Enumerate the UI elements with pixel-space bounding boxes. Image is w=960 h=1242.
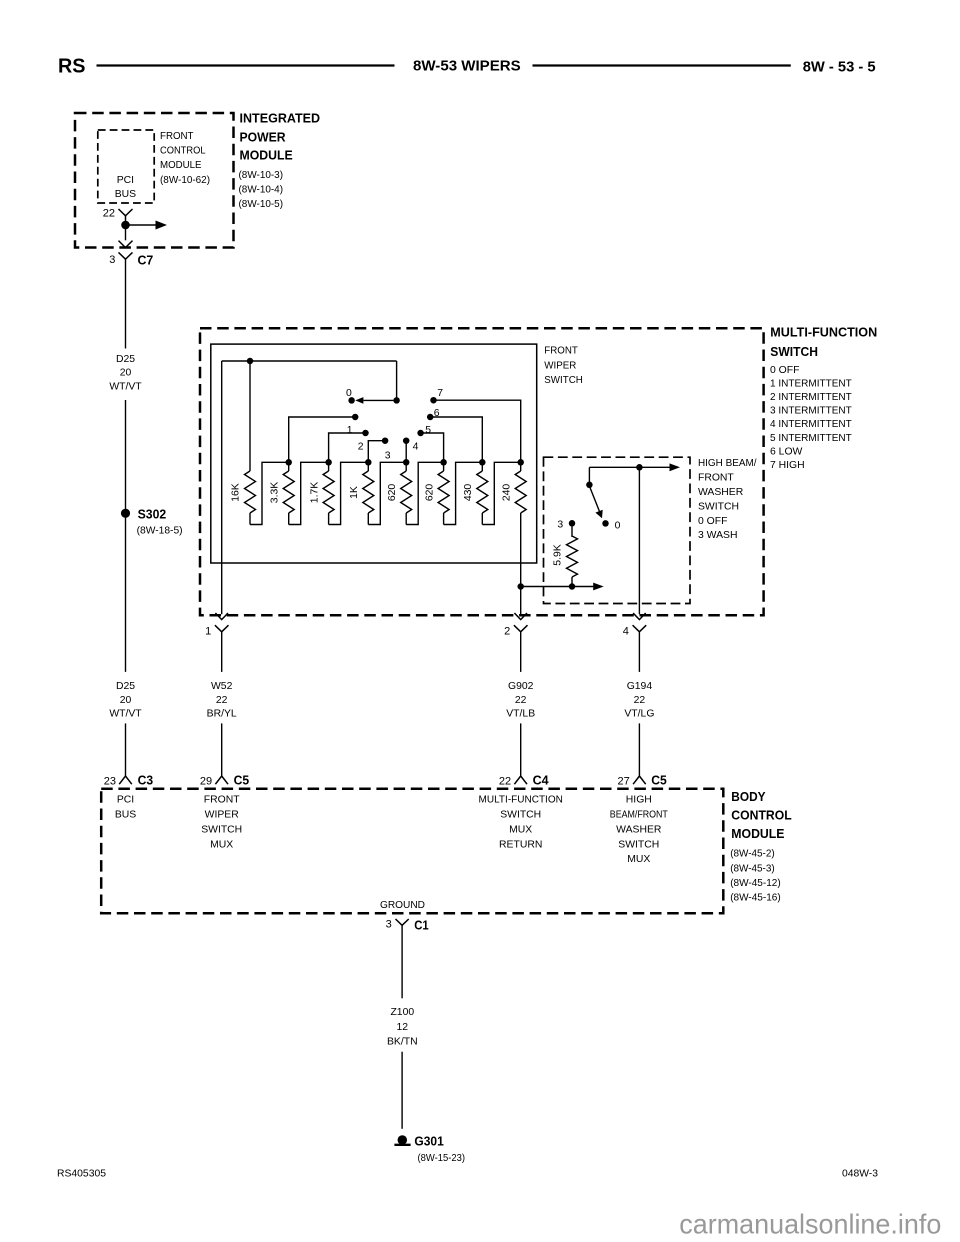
connector label C7	[138, 253, 154, 268]
svg-text:D25: D25	[116, 681, 135, 692]
svg-text:8W-53 WIPERS: 8W-53 WIPERS	[413, 58, 521, 75]
svg-text:7 HIGH: 7 HIGH	[770, 460, 805, 471]
wire D25 from C7 down	[125, 259, 127, 348]
svg-text:FRONT: FRONT	[698, 473, 734, 484]
connector label C5	[651, 772, 667, 787]
svg-text:MODULE: MODULE	[160, 160, 202, 171]
terminal 2 number	[504, 626, 510, 638]
junction dot at 5.9K bottom	[569, 583, 576, 590]
svg-text:C4: C4	[533, 772, 550, 787]
terminal 4 crossing chevron	[633, 613, 646, 620]
svg-text:FRONT: FRONT	[204, 795, 240, 806]
wire label D25 20 WT/VT (upper)	[109, 354, 142, 392]
svg-text:MODULE: MODULE	[731, 826, 784, 841]
connector C7 crossing chevron	[119, 241, 133, 248]
multi-function switch box	[200, 328, 764, 615]
resistor R4 1K	[349, 462, 374, 524]
integrated power module box	[75, 113, 234, 248]
connector C5 male fork at BCM (pin 29)	[215, 776, 228, 784]
svg-text:(8W-45-16): (8W-45-16)	[730, 892, 781, 903]
connector C1 female fork	[396, 919, 409, 925]
switch position legend	[770, 365, 852, 471]
svg-text:20: 20	[120, 368, 132, 379]
svg-text:MUX: MUX	[627, 854, 650, 865]
washer contact 0 dot	[602, 520, 609, 527]
contact 2 dot and tap wire	[329, 430, 369, 463]
svg-text:(8W-10-4): (8W-10-4)	[239, 185, 284, 196]
svg-text:WT/VT: WT/VT	[109, 381, 142, 392]
header rule right	[533, 64, 791, 66]
contact 7 dot and tap wire	[430, 397, 520, 462]
wire Z100 lower segment	[401, 1052, 403, 1129]
svg-text:4 INTERMITTENT: 4 INTERMITTENT	[770, 419, 852, 430]
terminal 2 crossing chevron	[514, 613, 527, 620]
front wiper switch label	[544, 345, 583, 386]
BCM pin 27 function label	[610, 795, 669, 866]
svg-text:WASHER: WASHER	[698, 487, 744, 498]
svg-text:22: 22	[216, 695, 228, 706]
svg-text:3 INTERMITTENT: 3 INTERMITTENT	[770, 406, 852, 417]
pin number 23	[104, 775, 116, 787]
resistor R1 16K	[231, 471, 256, 525]
svg-text:MUX: MUX	[509, 824, 532, 835]
svg-text:1: 1	[205, 626, 211, 638]
svg-text:0: 0	[615, 521, 621, 532]
svg-text:5: 5	[425, 425, 431, 436]
ground G301 symbol	[394, 1135, 410, 1145]
svg-text:(8W-18-5): (8W-18-5)	[137, 526, 183, 537]
footer sheet number 048W-3	[842, 1169, 878, 1180]
wire G194 upper segment	[638, 632, 640, 672]
pin number 3 at C7	[109, 254, 115, 266]
junction dot on washer output	[636, 464, 643, 471]
junction dot at 16K top	[247, 358, 254, 365]
svg-text:620: 620	[424, 484, 435, 502]
front control module box	[98, 130, 154, 203]
wire wiper drop	[396, 361, 398, 400]
svg-text:3 WASH: 3 WASH	[698, 530, 737, 541]
svg-text:WIPER: WIPER	[544, 360, 576, 371]
wire W52 upper segment	[221, 632, 223, 672]
wiper junction dot	[393, 397, 400, 404]
resistor R8 240	[501, 462, 526, 524]
wiper arm arrow pointing at contact 0	[355, 397, 396, 404]
wire series link R3 to R4	[329, 462, 369, 524]
BCM pin 23 function label PCI BUS	[115, 795, 136, 821]
pin 22 connector at FCM	[119, 209, 133, 222]
svg-text:1K: 1K	[349, 486, 360, 499]
BCM ground label	[380, 900, 425, 911]
junction node dot at R4 top	[365, 459, 372, 466]
svg-text:VT/LG: VT/LG	[624, 709, 654, 720]
washer switch movable arm	[589, 485, 603, 518]
connector C7 female fork	[119, 252, 133, 259]
svg-text:3.3K: 3.3K	[269, 482, 280, 503]
svg-text:6 LOW: 6 LOW	[770, 446, 803, 457]
contact 2 label	[358, 441, 364, 452]
junction node dot at R7 top	[479, 459, 486, 466]
connector C5 male fork at BCM (pin 27)	[633, 776, 646, 784]
svg-text:1.7K: 1.7K	[309, 482, 320, 503]
wire G902 lower segment	[520, 723, 522, 776]
contact 6 dot and tap wire	[427, 414, 482, 463]
junction dot in IPM	[121, 221, 130, 230]
wire 240 bottom to junction	[520, 525, 522, 615]
connector C3 male fork at BCM	[119, 776, 132, 784]
svg-text:C1: C1	[414, 918, 429, 933]
svg-text:BUS: BUS	[115, 810, 136, 821]
svg-text:SWITCH: SWITCH	[500, 810, 541, 821]
terminal 1 crossing chevron	[215, 613, 228, 620]
svg-text:RETURN: RETURN	[499, 839, 542, 850]
svg-text:D25: D25	[116, 354, 135, 365]
footer drawing number RS405305	[57, 1169, 106, 1180]
terminal 1 female fork	[215, 625, 229, 632]
wire label G194 22 VT/LG	[624, 681, 654, 719]
node PCI BUS inside FCM	[115, 175, 136, 200]
svg-text:1: 1	[347, 425, 353, 436]
svg-text:3: 3	[385, 451, 391, 462]
wire G194 lower segment	[638, 723, 640, 776]
svg-text:GROUND: GROUND	[380, 900, 425, 911]
contact 5 dot and tap wire	[417, 430, 443, 463]
high beam/front washer switch label	[698, 458, 757, 541]
svg-text:0 OFF: 0 OFF	[770, 365, 799, 376]
splice label S302 (8W-18-5)	[137, 507, 183, 537]
contact 4 dot and tap wire	[403, 437, 410, 462]
svg-text:4: 4	[413, 441, 419, 452]
contact 4 label	[413, 441, 419, 452]
wire D25 continues to BCM	[125, 400, 127, 672]
svg-text:620: 620	[387, 484, 398, 502]
svg-text:FRONT: FRONT	[544, 345, 578, 356]
front control module label	[160, 131, 210, 186]
svg-text:G301: G301	[414, 1133, 443, 1148]
integrated power module label	[239, 111, 321, 211]
svg-text:W52: W52	[211, 681, 233, 692]
svg-text:2: 2	[358, 441, 364, 452]
svg-text:HIGH BEAM/: HIGH BEAM/	[698, 458, 757, 469]
contact 0 dot	[348, 397, 355, 404]
multi-function switch label	[770, 325, 877, 360]
svg-text:(8W-45-12): (8W-45-12)	[730, 878, 781, 889]
wire common feed (left vertical to terminal 1)	[221, 361, 223, 614]
svg-text:23: 23	[104, 775, 116, 787]
wire label W52 22 BR/YL	[207, 681, 237, 719]
wire 16K top lead	[249, 361, 251, 471]
svg-text:22: 22	[103, 208, 115, 220]
wire label Z100 12 BK/TN	[387, 1007, 418, 1048]
terminal 1 number	[205, 626, 211, 638]
header label RS	[58, 56, 86, 78]
body control module label	[730, 789, 792, 904]
washer contact 3 label	[557, 520, 563, 531]
svg-text:PCI: PCI	[117, 795, 134, 806]
svg-text:22: 22	[634, 695, 646, 706]
resistor R7 430	[463, 462, 488, 524]
svg-text:5 INTERMITTENT: 5 INTERMITTENT	[770, 433, 852, 444]
svg-text:(8W-10-62): (8W-10-62)	[160, 175, 210, 186]
svg-text:CONTROL: CONTROL	[160, 146, 206, 157]
junction node dot at R6 top	[440, 459, 447, 466]
wire washer feed with arrow	[521, 583, 604, 591]
svg-text:carmanualsonline.info: carmanualsonline.info	[679, 1208, 941, 1239]
resistor R2 3.3K	[269, 462, 294, 524]
svg-text:SWITCH: SWITCH	[770, 344, 818, 359]
svg-text:Z100: Z100	[390, 1007, 414, 1018]
resistor R3 1.7K	[309, 462, 334, 524]
wire label D25 20 WT/VT (lower)	[109, 681, 142, 719]
svg-text:BODY: BODY	[731, 789, 766, 804]
svg-text:RS: RS	[58, 56, 86, 78]
svg-text:(8W-10-5): (8W-10-5)	[239, 199, 284, 210]
svg-text:POWER: POWER	[240, 129, 287, 144]
svg-text:0: 0	[346, 388, 352, 399]
header rule left	[97, 64, 395, 66]
svg-text:C5: C5	[651, 772, 667, 787]
svg-text:3: 3	[557, 520, 563, 531]
wire top feed horizontal	[222, 360, 397, 362]
svg-text:G902: G902	[508, 681, 534, 692]
resistor R9 5.9K	[552, 523, 577, 586]
front wiper switch inner box	[211, 344, 537, 563]
svg-text:MULTI-FUNCTION: MULTI-FUNCTION	[479, 795, 563, 806]
svg-text:BR/YL: BR/YL	[207, 709, 237, 720]
svg-text:HIGH: HIGH	[626, 795, 652, 806]
svg-text:INTEGRATED: INTEGRATED	[240, 111, 321, 126]
svg-text:WIPER: WIPER	[205, 810, 240, 821]
svg-text:3: 3	[386, 919, 392, 931]
splice S302	[121, 509, 130, 518]
connector label C4	[533, 772, 550, 787]
svg-text:20: 20	[120, 695, 132, 706]
svg-text:SWITCH: SWITCH	[618, 839, 659, 850]
svg-text:048W-3: 048W-3	[842, 1169, 878, 1180]
pin number 27	[618, 775, 630, 787]
contact 1 dot and tap wire	[289, 414, 359, 463]
svg-text:8W - 53 - 5: 8W - 53 - 5	[803, 58, 876, 75]
svg-text:S302: S302	[138, 507, 167, 522]
ground label G301 (8W-15-23)	[414, 1133, 465, 1164]
pin number 22	[499, 775, 511, 787]
pin number 3 at C1	[386, 919, 392, 931]
svg-text:2 INTERMITTENT: 2 INTERMITTENT	[770, 392, 852, 403]
svg-text:CONTROL: CONTROL	[731, 808, 791, 823]
body control module box	[101, 789, 723, 914]
wire Z100 upper segment	[401, 925, 403, 998]
svg-text:BEAM/FRONT: BEAM/FRONT	[610, 810, 669, 821]
svg-text:(8W-45-2): (8W-45-2)	[730, 849, 775, 860]
wire series link R5 to R6	[406, 462, 443, 524]
resistor R6 620	[424, 462, 449, 524]
resistor R5 620	[387, 462, 412, 524]
svg-text:WT/VT: WT/VT	[109, 709, 142, 720]
junction node dot at R3 top	[325, 459, 332, 466]
wire series link R7 to R8	[482, 462, 520, 524]
svg-text:27: 27	[618, 775, 630, 787]
contact 7 label	[437, 388, 443, 399]
watermark carmanualsonline.info	[679, 1208, 941, 1239]
junction dot at 240 bottom	[517, 583, 524, 590]
BCM pin 22 function label	[479, 795, 563, 851]
connector label C5	[234, 772, 250, 787]
svg-text:SWITCH: SWITCH	[544, 375, 583, 386]
connector label C1	[414, 918, 429, 933]
svg-text:WASHER: WASHER	[616, 824, 662, 835]
wire D25 lower segment	[125, 723, 127, 776]
svg-text:MODULE: MODULE	[240, 148, 293, 163]
svg-text:BK/TN: BK/TN	[387, 1037, 418, 1048]
high beam/front washer switch box	[544, 457, 691, 603]
svg-text:(8W-10-3): (8W-10-3)	[239, 170, 284, 181]
svg-text:3: 3	[109, 254, 115, 266]
svg-text:16K: 16K	[231, 483, 242, 502]
washer contact 0 label	[615, 521, 621, 532]
svg-text:C5: C5	[234, 772, 250, 787]
wire series link R2 to R3	[289, 462, 329, 524]
svg-text:240: 240	[501, 484, 512, 502]
svg-text:C3: C3	[138, 772, 154, 787]
header page number 8W - 53 - 5	[803, 58, 876, 75]
pin number 22	[103, 208, 115, 220]
svg-text:7: 7	[437, 388, 443, 399]
svg-text:2: 2	[504, 626, 510, 638]
wire label G902 22 VT/LB	[506, 681, 535, 719]
contact 3 label	[385, 451, 391, 462]
wire series link R4 to R5	[368, 462, 406, 524]
washer contact 3 dot	[569, 520, 576, 527]
contact 1 label	[347, 425, 353, 436]
svg-text:4: 4	[623, 626, 629, 638]
washer switch top wire with arrow	[589, 463, 680, 484]
svg-text:PCI: PCI	[117, 175, 134, 186]
branch arrow to right (PCI bus continues)	[126, 221, 168, 230]
wire washer output vertical	[638, 467, 640, 614]
connector label C3	[138, 772, 154, 787]
svg-text:VT/LB: VT/LB	[506, 709, 535, 720]
terminal 2 female fork	[514, 625, 528, 632]
contact 3 dot and tap wire	[368, 437, 388, 462]
svg-text:5.9K: 5.9K	[552, 544, 563, 565]
junction node dot at R2 top	[285, 459, 292, 466]
BCM pin 29 function label	[201, 795, 242, 851]
wire W52 lower segment	[221, 723, 223, 776]
svg-text:RS405305: RS405305	[57, 1169, 106, 1180]
header title 8W-53 WIPERS	[413, 58, 521, 75]
svg-text:MUX: MUX	[210, 839, 233, 850]
svg-text:0 OFF: 0 OFF	[698, 516, 727, 527]
terminal 4 female fork	[633, 625, 647, 632]
junction node dot at R5 top	[403, 459, 410, 466]
wire from junction down to C7	[125, 225, 127, 240]
svg-text:29: 29	[200, 775, 212, 787]
svg-text:C7: C7	[138, 253, 154, 268]
svg-text:SWITCH: SWITCH	[698, 501, 739, 512]
svg-text:12: 12	[397, 1022, 409, 1033]
contact 6 label	[434, 408, 440, 419]
svg-text:(8W-15-23): (8W-15-23)	[418, 1153, 466, 1164]
svg-text:6: 6	[434, 408, 440, 419]
svg-text:SWITCH: SWITCH	[201, 824, 242, 835]
contact 0 label	[346, 388, 352, 399]
contact 5 label	[425, 425, 431, 436]
svg-text:MULTI-FUNCTION: MULTI-FUNCTION	[770, 325, 877, 340]
connector C4 male fork at BCM (pin 22)	[514, 776, 527, 784]
svg-text:G194: G194	[627, 681, 653, 692]
svg-text:22: 22	[499, 775, 511, 787]
pin number 29	[200, 775, 212, 787]
wire G902 upper segment	[520, 632, 522, 672]
svg-text:430: 430	[463, 484, 474, 502]
svg-text:22: 22	[515, 695, 527, 706]
terminal 4 number	[623, 626, 629, 638]
wire series link R6 to R7	[444, 462, 483, 524]
wire series link R1 to R2	[250, 462, 289, 524]
svg-text:(8W-45-3): (8W-45-3)	[730, 863, 775, 874]
svg-text:FRONT: FRONT	[160, 131, 194, 142]
svg-text:BUS: BUS	[115, 189, 136, 200]
svg-text:1 INTERMITTENT: 1 INTERMITTENT	[770, 378, 852, 389]
washer switch pivot dot	[586, 482, 593, 489]
junction node dot at R8 top	[517, 459, 524, 466]
